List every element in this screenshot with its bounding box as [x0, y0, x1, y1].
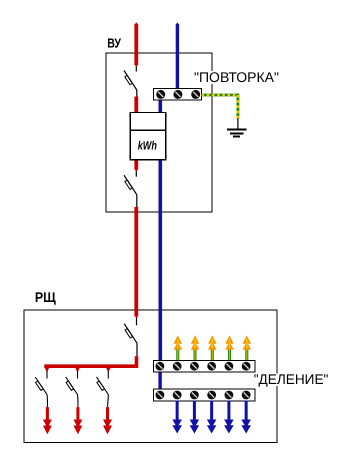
stub branch 1 — [45, 368, 49, 371]
arrow blue down 3 — [207, 420, 217, 434]
arrow red out 1 — [43, 407, 52, 434]
terminal strip X2 upper — [154, 361, 255, 373]
label RSch — [35, 289, 57, 305]
arrow blue down 1 — [172, 420, 182, 434]
PE stem 2 — [194, 349, 197, 361]
PE stem 3 — [211, 349, 214, 361]
breaker QF1 (VU input, phase) — [124, 65, 137, 97]
wire red QF3 to bus corner — [44, 356, 136, 366]
arrow blue down 5 — [241, 420, 251, 434]
PE stem 1 — [176, 349, 179, 361]
wire blue link between strips — [158, 371, 161, 390]
svg-text:"ДЕЛЕНИЕ": "ДЕЛЕНИЕ" — [254, 371, 329, 387]
terminal strip X1 POVTORKA — [153, 89, 201, 101]
arrow blue down 2 — [190, 420, 200, 434]
wire blue strip to meter and meter down to RSch strip — [159, 99, 163, 362]
wire N neutral blue drop (top feed) — [176, 22, 180, 89]
breaker QF3 (RSch main, phase) — [124, 316, 137, 357]
wire blue out 2 — [193, 401, 196, 427]
label DELENIE — [253, 371, 330, 387]
wire red meter to QF2 (behind meter) — [134, 155, 138, 170]
arrow PE up 3 — [208, 335, 216, 349]
ground symbol — [227, 118, 247, 136]
wire red QF1 to meter — [134, 97, 138, 114]
label POVTORKA — [193, 69, 281, 85]
arrow PE up 5 — [243, 335, 251, 349]
wire L phase red drop (top feed) — [134, 22, 138, 65]
svg-text:ВУ: ВУ — [107, 36, 122, 51]
wire blue out 1 — [176, 401, 179, 427]
wire red QF2 down to RSch — [134, 207, 138, 316]
meter kWh — [130, 113, 166, 160]
label VU — [107, 36, 122, 51]
stub branch 3 — [106, 368, 110, 371]
wire end tapers at breaker contacts — [46, 64, 139, 409]
arrow PE up 1 — [174, 335, 182, 349]
svg-text:РЩ: РЩ — [35, 289, 57, 305]
svg-text:kWh: kWh — [138, 139, 157, 153]
switch SF1 — [35, 371, 47, 408]
screw 2 — [173, 90, 182, 99]
arrow red out 2 — [73, 407, 82, 434]
stub branch 2 — [75, 368, 79, 371]
wire blue out 3 — [210, 401, 213, 427]
PE stem 5 — [245, 349, 248, 361]
terminal strip X3 lower — [154, 389, 255, 401]
arrow red out 3 — [103, 407, 112, 434]
screw 3 — [191, 90, 200, 99]
svg-text:"ПОВТОРКА": "ПОВТОРКА" — [194, 69, 279, 85]
screws row 2 — [156, 391, 165, 400]
screw 1 — [156, 90, 165, 99]
screws row 1 — [156, 362, 165, 371]
switch SF3 — [97, 371, 109, 408]
arrow PE up 4 — [225, 335, 233, 349]
wire blue out 5 — [245, 401, 248, 427]
switch SF2 — [66, 371, 78, 408]
arrow PE up 2 — [191, 335, 199, 349]
enclosure VU box — [106, 53, 212, 212]
wire PE green-yellow to ground — [202, 95, 238, 119]
arrow blue down 4 — [224, 420, 234, 434]
enclosure RSch box — [24, 310, 277, 443]
wire blue out 4 — [227, 401, 230, 427]
breaker QF2 (VU output, phase) — [124, 170, 137, 208]
PE stem 4 — [228, 349, 231, 361]
